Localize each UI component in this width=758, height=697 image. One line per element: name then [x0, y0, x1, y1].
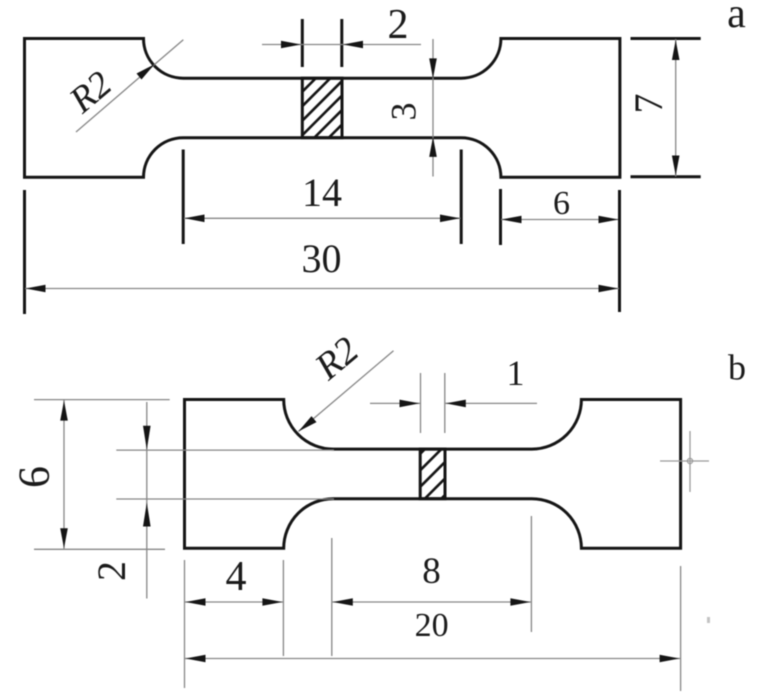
dim 8 (b): dimension line: [332, 601, 531, 603]
gauge bottom extension line (b): [116, 498, 334, 500]
dim 2 (a): tick left: [301, 19, 304, 67]
dim 4 (b): right arrow: [262, 598, 282, 606]
dim 7 (a): dimension line: [675, 39, 677, 177]
svg-text:b: b: [728, 348, 746, 388]
leader R2 (b): [299, 351, 394, 432]
dim 6 (a): dimension line: [501, 219, 619, 221]
svg-text:1: 1: [507, 353, 525, 393]
dim 14 (a): dimension line: [184, 217, 461, 219]
svg-text:30: 30: [302, 236, 342, 281]
svg-text:2: 2: [388, 2, 409, 48]
dim 6 (b): bottom tick: [34, 548, 165, 550]
dim 8 (b): right extension line: [530, 516, 532, 632]
dim 6 (b): top arrow: [60, 401, 68, 421]
dim 4 (b): right extension line: [282, 560, 284, 656]
dim 1 (b): left arrow: [400, 400, 420, 408]
svg-text:3: 3: [384, 103, 424, 121]
dim 1 (b): dimension line right: [445, 402, 537, 404]
stray speck: [707, 617, 710, 623]
svg-text:4: 4: [226, 554, 247, 600]
dim 2 (a): left arrow: [281, 41, 301, 49]
hatched cross-section a: [282, 22, 372, 199]
dim 14 (a): left arrow: [185, 215, 205, 223]
dim 7 (a): top tick: [631, 37, 701, 40]
gauge top extension line (b): [116, 449, 334, 451]
dim 20 (b): right arrow: [660, 655, 680, 663]
dim 2 (a): tick right: [340, 19, 343, 67]
dim 30 (a): left arrow: [26, 285, 46, 293]
svg-text:2: 2: [89, 561, 134, 581]
dim 20 (b): left arrow: [186, 655, 206, 663]
specimen a outline: [25, 39, 620, 178]
dim 1 (b): right arrow: [446, 400, 466, 408]
svg-text:14: 14: [302, 170, 342, 215]
dim 30 (a): right arrow: [599, 285, 619, 293]
dim 6 (a): left extension line: [499, 189, 502, 245]
dim 20 (b): right extension line: [680, 566, 682, 691]
svg-text:R2: R2: [61, 63, 120, 121]
dim 2 (a): right arrow: [343, 41, 363, 49]
dim 30 (a): dimension line: [25, 288, 619, 290]
dim 7 (a): bottom arrow: [672, 156, 680, 176]
dim 2 (a): dimension line: [262, 44, 421, 46]
dim 3 (a): bottom arrow: [429, 137, 437, 157]
dim 20 (b): dimension line: [185, 658, 680, 660]
hatch b border: [420, 449, 445, 499]
dim 2 (b): dimension line: [146, 402, 148, 599]
dim 4 (b): left extension line: [184, 560, 186, 688]
hatch a border: [302, 78, 342, 138]
dim 30 (a): left extension line: [23, 190, 26, 314]
hatched cross-section b: [400, 384, 490, 540]
dim 8 (b): left extension line: [331, 538, 333, 656]
dim 7 (a): top arrow: [672, 40, 680, 60]
dim 1 (b): tick left: [420, 373, 422, 433]
dim 6 (b): bottom arrow: [60, 528, 68, 548]
dim 2 (b): lower arrow (up): [143, 503, 151, 527]
dim 1 (b): tick right: [444, 373, 446, 433]
dim 8 (b): left arrow: [333, 598, 353, 606]
svg-text:6: 6: [10, 466, 59, 488]
dim 14 (a): right arrow: [440, 215, 460, 223]
dim 6 (b): top tick: [34, 399, 170, 401]
dim 6 (b): dimension line: [63, 400, 65, 549]
svg-text:7: 7: [626, 94, 671, 114]
leader R2 (a): [76, 40, 183, 132]
svg-text:a: a: [727, 0, 746, 37]
svg-text:8: 8: [422, 551, 441, 592]
dim 3 (a): dimension line: [432, 39, 434, 177]
dim 6 (a): left arrow: [502, 216, 522, 224]
dim 6 (a): right arrow: [599, 216, 619, 224]
dim 14 (a): right extension line: [460, 150, 463, 245]
svg-text:20: 20: [415, 607, 449, 644]
dim 8 (b): right arrow: [510, 598, 530, 606]
svg-text:R2: R2: [307, 329, 367, 389]
specimen b outline: [185, 400, 681, 549]
dim 4 (b): left arrow: [186, 598, 206, 606]
svg-text:6: 6: [553, 185, 570, 222]
dim 14 (a): left extension line: [182, 150, 185, 245]
leader arrow a: [137, 64, 155, 79]
dim 30 (a): right extension line: [618, 190, 621, 312]
dim 3 (a): top arrow: [429, 58, 437, 78]
dim 1 (b): dimension line left: [370, 402, 420, 404]
dim 7 (a): bottom tick: [631, 175, 701, 178]
dim 2 (b): upper arrow (down): [143, 426, 151, 450]
stray crosshair mark: [660, 431, 709, 492]
leader arrow b: [299, 416, 317, 431]
dim 4 (b): dimension line: [185, 601, 283, 603]
